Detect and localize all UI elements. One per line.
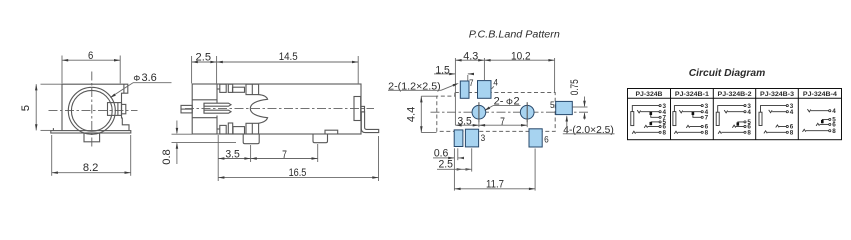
PCB land pattern: hole circle 2 xyxy=(520,105,534,119)
circuit diagram: table frame xyxy=(628,89,842,140)
svg-text:4.3: 4.3 xyxy=(463,51,478,63)
circuit schematic PJ-324B-1: tip contact wire to pin 4 xyxy=(679,110,682,113)
svg-text:7: 7 xyxy=(500,116,505,128)
PCB land pattern: pad 6 xyxy=(529,129,542,147)
side view: upper contact clips xyxy=(220,84,226,92)
svg-text:1.5: 1.5 xyxy=(435,64,450,76)
circuit schematic PJ-324B: wire to pin 7 xyxy=(651,115,659,117)
side view: body outline xyxy=(192,84,361,134)
svg-text:2.5: 2.5 xyxy=(196,51,212,63)
svg-text:8: 8 xyxy=(747,130,751,137)
side view: tip spring contact (C shape) xyxy=(250,95,267,124)
PCB land pattern: pad 7 xyxy=(460,81,469,98)
circuit schematic PJ-324B-2: wire to pin 5 with drop xyxy=(738,122,744,126)
front view: right side contact tab xyxy=(108,103,122,116)
circuit schematic PJ-324B-1: wire to pin 3 xyxy=(674,106,701,112)
circuit schematic PJ-324B-1: ring contact wire to pin 6 xyxy=(686,125,689,128)
svg-text:PJ-324B: PJ-324B xyxy=(636,91,663,98)
svg-text:4.4: 4.4 xyxy=(406,107,418,123)
circuit schematic PJ-324B: switch block 5-6 xyxy=(650,122,653,125)
circuit schematic PJ-324B-2: sleeve bar xyxy=(716,112,719,125)
circuit schematic PJ-324B: sleeve bar xyxy=(631,112,634,126)
svg-text:Φ3.6: Φ3.6 xyxy=(133,72,156,84)
circuit schematic PJ-324B-4: sleeve wire to pin 8 xyxy=(803,129,806,132)
PCB land pattern: dashed component outline xyxy=(437,93,555,132)
side view: L-shaped mounting bracket xyxy=(361,112,378,133)
front view: horizontal centerline xyxy=(49,110,138,112)
circuit schematic PJ-324B-3: sleeve wire to pin 8 xyxy=(764,131,767,134)
svg-text:6: 6 xyxy=(544,134,549,144)
svg-text:2.5: 2.5 xyxy=(438,158,453,170)
side view: dimension 3.5 / 7 (pin pitch) xyxy=(217,135,219,181)
svg-text:6: 6 xyxy=(88,50,93,62)
PCB land pattern: dimension 4.4 (left) xyxy=(421,95,436,97)
front view: dimension 8.2 (bottom width) xyxy=(51,135,53,176)
circuit schematic PJ-324B: wire to pin 5 xyxy=(651,121,659,123)
PCB land pattern: pad 4 xyxy=(478,81,492,99)
circuit schematic PJ-324B-1: wire to pin 7 xyxy=(693,115,701,117)
circuit schematic PJ-324B-1: switch block 4-7 xyxy=(692,112,695,115)
svg-text:5: 5 xyxy=(550,100,555,110)
front view: dimension 6 (top width) xyxy=(61,56,63,84)
circuit schematic PJ-324B: sleeve wire to pin 8 xyxy=(632,131,635,134)
PCB land pattern: horizontal centerline xyxy=(431,111,591,113)
svg-text:4: 4 xyxy=(493,78,498,88)
PCB land pattern: hole circle 1 xyxy=(472,105,486,119)
svg-text:8: 8 xyxy=(705,130,709,137)
svg-text:4-(2.0×2.5): 4-(2.0×2.5) xyxy=(563,124,614,136)
PCB land pattern: pad 5 xyxy=(556,101,573,114)
side view: right contact plate xyxy=(354,97,361,121)
circuit schematic PJ-324B: tip contact wire to pin 4 xyxy=(637,110,640,113)
svg-text:3: 3 xyxy=(481,133,486,143)
svg-text:16.5: 16.5 xyxy=(289,167,307,179)
svg-text:11.7: 11.7 xyxy=(486,178,504,190)
circuit schematic PJ-324B-1: sleeve bar xyxy=(673,112,676,126)
svg-text:0.8: 0.8 xyxy=(161,149,173,165)
svg-text:PJ-324B-4: PJ-324B-4 xyxy=(803,91,838,98)
side view: dimension 0.8 (tab protrusion) xyxy=(172,133,193,135)
PCB land pattern: dimension 3.5 / 7 (hole pitch) xyxy=(478,119,480,127)
front view: inner barrel circle xyxy=(71,90,112,131)
circuit schematic PJ-324B-4: wire to pin 5 with drop xyxy=(822,119,828,123)
svg-text:0.75: 0.75 xyxy=(569,79,581,95)
side view: lower contact clips xyxy=(220,125,226,134)
circuit schematic PJ-324B-3: tip contact wire to pin 4 xyxy=(769,110,772,113)
svg-text:PJ-324B-1: PJ-324B-1 xyxy=(675,91,710,98)
circuit schematic PJ-324B: ring contact wire to pin 6 xyxy=(644,125,647,128)
svg-text:5: 5 xyxy=(20,105,32,111)
circuit schematic PJ-324B-2: switch block 5-6 xyxy=(737,122,740,125)
circuit schematic PJ-324B-2: tip contact wire to pin 4 xyxy=(724,110,727,113)
svg-text:8: 8 xyxy=(663,130,667,137)
side view: horizontal centerline xyxy=(185,108,374,110)
svg-text:14.5: 14.5 xyxy=(279,51,298,63)
side view: internal wall lines xyxy=(216,84,218,103)
svg-text:7: 7 xyxy=(282,149,287,161)
PCB land pattern: dimension 11.7 xyxy=(453,148,455,190)
front view: outer barrel circle xyxy=(68,87,115,134)
circuit schematic PJ-324B: switch block 4-7 xyxy=(650,112,653,115)
svg-text:4: 4 xyxy=(747,109,751,116)
side view: bottom step notch xyxy=(325,130,338,134)
side view: left protruding sleeve pin xyxy=(181,105,192,113)
svg-text:PJ-324B-2: PJ-324B-2 xyxy=(718,91,753,98)
svg-text:3.5: 3.5 xyxy=(457,115,471,127)
svg-text:4: 4 xyxy=(832,108,836,115)
circuit schematic PJ-324B-3: sleeve bar xyxy=(759,112,762,125)
circuit schematic PJ-324B: wire to pin 3 xyxy=(632,106,659,112)
PCB land pattern: dimension 4.3 / 10.2 (top) xyxy=(454,58,456,125)
circuit schematic PJ-324B-4: tip contact wire to pin 4 xyxy=(807,109,810,112)
front view: bottom flange xyxy=(51,131,131,133)
svg-text:7: 7 xyxy=(705,115,709,122)
front view: body outline xyxy=(62,84,129,130)
side view: dimension 16.5 (overall length) xyxy=(378,136,380,181)
svg-text:7: 7 xyxy=(469,78,473,88)
svg-text:3.5: 3.5 xyxy=(225,148,240,160)
svg-text:Circuit Diagram: Circuit Diagram xyxy=(689,68,766,79)
front view: bottom center tab xyxy=(84,133,100,142)
side view: sleeve fork contact xyxy=(204,103,231,106)
side view: bottom locating tab 1 xyxy=(243,134,259,144)
svg-text:P.C.B.Land Pattern: P.C.B.Land Pattern xyxy=(469,29,560,40)
circuit schematic PJ-324B-4: switch block 5-6 xyxy=(821,120,824,123)
side view: bracket bump xyxy=(361,106,365,112)
front view: vertical centerline xyxy=(91,72,93,149)
svg-text:PJ-324B-3: PJ-324B-3 xyxy=(760,91,795,98)
circuit schematic PJ-324B-3: wire to pin 3 xyxy=(761,106,787,113)
svg-text:8: 8 xyxy=(832,128,836,135)
svg-text:8.2: 8.2 xyxy=(83,162,99,174)
circuit schematic PJ-324B-1: sleeve wire to pin 8 xyxy=(674,131,677,134)
circuit schematic PJ-324B-2: wire to pin 3 xyxy=(718,106,744,113)
side view: bottom locating tab 2 xyxy=(313,134,328,143)
PCB land pattern: pad 3 (narrow) xyxy=(454,130,463,147)
front view: dimension 5 (left height) xyxy=(41,83,62,85)
circuit schematic PJ-324B-3: ring contact wire to pin 6 xyxy=(776,125,779,128)
svg-text:10.2: 10.2 xyxy=(511,51,531,63)
side view: dimension 2.5 / 14.5 (top) xyxy=(191,56,193,83)
circuit schematic PJ-324B-2: ring contact wire to pin 6 xyxy=(732,125,735,128)
circuit schematic PJ-324B-4: ring contact wire to pin 6 xyxy=(816,123,819,126)
svg-text:8: 8 xyxy=(790,130,794,137)
svg-text:4: 4 xyxy=(790,109,794,116)
PCB land pattern: pad 3 (wide) xyxy=(465,129,478,147)
circuit schematic PJ-324B-2: sleeve wire to pin 8 xyxy=(718,131,721,134)
